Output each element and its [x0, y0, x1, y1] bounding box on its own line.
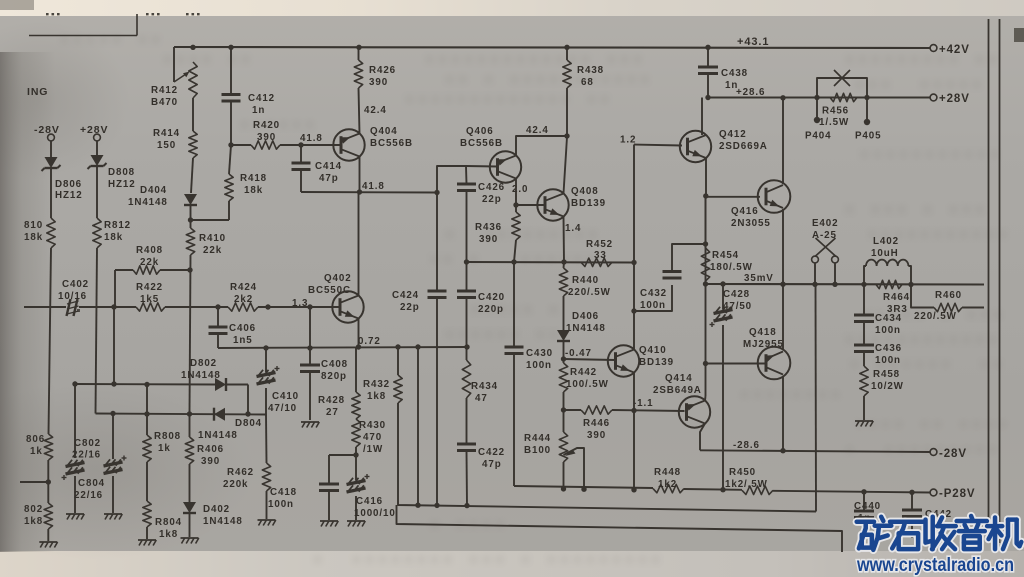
- capacitor C418 100n: [319, 482, 339, 485]
- node -0.47: [563, 341, 565, 363]
- capacitor C440 1n: [863, 492, 865, 511]
- wire feedback line left: [513, 485, 515, 487]
- resistor R424 2k2: [228, 303, 258, 311]
- wire 1.2 to Q412 base: [634, 145, 682, 146]
- ground under C416: [347, 520, 365, 522]
- transistor Q416 2N3055 (NPN): [758, 180, 791, 213]
- resistor R430 470/1W: [352, 419, 360, 447]
- capacitor C434 100n: [863, 284, 865, 315]
- wire stub left at 482: [47, 460, 49, 503]
- resistor R448 1k2: [653, 484, 684, 492]
- wire Q418 emitter up: [782, 284, 784, 350]
- wire Q402 emitter down to 0.72 line: [358, 319, 360, 348]
- resistor R406 390: [185, 437, 193, 464]
- transistor Q418 MJ2955 (PNP): [758, 347, 791, 380]
- wire Q414 collector to -28.6 line: [700, 424, 705, 451]
- zener D808 HZ12: [96, 141, 98, 155]
- wire to Q410 base: [564, 359, 616, 360]
- wire bias row upper y384: [75, 383, 215, 386]
- capacitor C408 820p: [309, 307, 311, 365]
- wire Q410 collector to x634: [633, 311, 635, 350]
- resistor R460 220/.5W: [908, 282, 913, 287]
- wire R432 to bus1: [398, 403, 816, 512]
- resistor R454 180/.5W: [705, 197, 707, 248]
- wire Q406 collector down to Q408 base: [515, 179, 517, 206]
- wire Q414 emitter up / x703 vertical: [705, 197, 707, 364]
- schematic frame corner top-left: [29, 35, 137, 37]
- page margin marks: [46, 13, 49, 15]
- wire -28V column down: [49, 248, 52, 434]
- wire +28.6 rail: [708, 96, 930, 98]
- capacitor C436 100n: [863, 322, 865, 345]
- transistor Q408 BD139 (NPN): [537, 189, 568, 220]
- diode D406 1N4148: [563, 296, 565, 330]
- resistor R414 150: [189, 131, 197, 158]
- wire VAS rail x634: [633, 145, 635, 263]
- wire emitter row y262: [467, 261, 635, 264]
- diode D402 1N4148: [189, 464, 191, 502]
- resistor R434 47: [466, 298, 468, 347]
- resistor 806 1k: [44, 434, 52, 460]
- pin P404: [816, 98, 818, 119]
- wire Q408 emitter down: [563, 217, 566, 263]
- capacitor C424 22p: [436, 193, 438, 292]
- wire R414 to D404: [191, 158, 193, 193]
- wire Q412 collector up: [701, 98, 703, 136]
- capacitor C416 1000/10 electrolytic: [355, 455, 357, 480]
- page fold line 1: [988, 19, 990, 540]
- capacitor C802 22/16 electrolytic: [74, 384, 76, 458]
- resistor R412 (B470 trimmer): [189, 62, 197, 98]
- resistor R408 22k: [114, 270, 116, 307]
- wire R812 down to D-row corner: [96, 248, 98, 414]
- transistor Q402 BC550C (NPN): [332, 291, 363, 322]
- wire Q404 collector down: [359, 157, 361, 193]
- capacitor C442: [911, 492, 913, 510]
- wire Q408 collector up: [564, 137, 568, 194]
- ground under R458: [855, 420, 873, 422]
- resistor R438 68: [563, 60, 571, 88]
- wire E402 right leg: [834, 263, 836, 284]
- wire x418 vertical: [417, 347, 419, 505]
- wire input line left: [24, 306, 66, 308]
- capacitor C412 1n: [230, 47, 232, 94]
- capacitor C426 22p: [465, 166, 468, 184]
- resistor R410 22k: [186, 228, 194, 255]
- wire output 35mV line: [706, 283, 985, 286]
- ground under D402: [181, 537, 199, 539]
- wire link 384-414 at x147: [146, 385, 148, 415]
- page fold line 2: [999, 19, 1001, 543]
- resistor R440 220/.5W: [559, 268, 567, 296]
- wire D404 to R410 with tap to R418: [190, 205, 192, 228]
- capacitor C406 1n5: [217, 307, 219, 327]
- wire 41.8 node up to Q406 base: [437, 166, 466, 193]
- wire bus2 lower: [397, 505, 843, 552]
- terminal -28V: [930, 449, 937, 456]
- capacitor C414 47p: [300, 145, 302, 163]
- resistor 802 1k8: [44, 503, 52, 529]
- pin P405: [866, 98, 868, 121]
- resistor R442 100/.5W: [559, 363, 567, 392]
- wire rail to R412 wiper: [173, 47, 175, 82]
- wire R430 bottom to C418: [329, 454, 356, 456]
- diode D404 1N4148: [184, 194, 197, 205]
- watermark logo blue text 矿石收音机: [857, 517, 892, 550]
- transistor Q410 BD139 (NPN): [608, 345, 639, 376]
- capacitor C402 10/16 electrolytic: [67, 299, 71, 316]
- wire E402 left leg down to bus1: [814, 263, 816, 284]
- wire -28.6 line: [700, 450, 930, 452]
- wire +43.1 top rail: [174, 47, 930, 48]
- resistor R444 B100 trimmer: [563, 392, 565, 432]
- node line 41.8 lower: [301, 191, 437, 194]
- capacitor C422 47p: [466, 398, 468, 444]
- resistor R428 27: [355, 347, 357, 392]
- svg-text:www.crystalradio.cn: www.crystalradio.cn: [856, 554, 1014, 576]
- resistor R436 390: [512, 212, 520, 240]
- ground under C418: [320, 520, 338, 522]
- resistor R452 33: [581, 258, 612, 266]
- resistor R458 10/2W: [863, 352, 865, 366]
- capacitor C438 1n: [707, 48, 709, 68]
- wire R412 to R414: [192, 98, 194, 131]
- capacitor C804 22/16 electrolytic: [112, 414, 114, 460]
- ground under R462: [258, 519, 276, 521]
- transistor Q406 BC556B (PNP): [490, 151, 521, 182]
- diode D802 1N4148: [215, 378, 226, 391]
- transistor Q414 2SB649A (PNP): [679, 396, 710, 427]
- ground under C802: [66, 513, 84, 515]
- terminal +28V: [930, 94, 937, 101]
- capacitor C432 100n: [634, 285, 672, 311]
- wire R410 down long vertical: [190, 255, 191, 413]
- ground under 802: [39, 541, 57, 543]
- ground under C408: [301, 421, 319, 423]
- resistor R464 3R3: [876, 280, 902, 288]
- wire Q402 collector up: [358, 193, 360, 296]
- resistor R418 18k: [225, 174, 233, 201]
- terminal +42V: [930, 45, 937, 52]
- resistor 810 18k: [50, 168, 52, 218]
- resistor R812 18k: [96, 166, 98, 218]
- zener D806 HZ12: [50, 141, 52, 157]
- capacitor C430 100n: [513, 262, 515, 347]
- wire D802 to drop: [227, 384, 249, 386]
- transistor Q404 BC556B (PNP): [333, 129, 364, 160]
- resistor R422 1k5: [136, 303, 165, 311]
- watermark logo white outline: [857, 517, 892, 550]
- diode D804 1N4148: [214, 408, 225, 421]
- ground under R804: [138, 539, 156, 541]
- capacitor C410 47/10 electrolytic: [265, 348, 267, 372]
- wire Q412 emitter down to Q416 base: [706, 158, 760, 197]
- fuse bypass loop with X: [817, 78, 867, 98]
- wire Q410 emitter to x634: [633, 373, 635, 411]
- wire Q418 base left: [706, 363, 767, 365]
- resistor R808 1k: [146, 414, 148, 435]
- resistor R456 1/.5W: [830, 93, 857, 101]
- transistor Q412 2SD669A (NPN): [680, 131, 711, 162]
- resistor R432 1k8: [397, 347, 399, 375]
- wire Q416 collector up: [782, 98, 784, 184]
- resistor R450 1k2/.5W: [742, 486, 773, 494]
- wire Q416 emitter down: [782, 209, 784, 284]
- resistor R804 1k8: [146, 462, 148, 501]
- terminal -P28V: [930, 489, 937, 496]
- wire Q406 emitter to 42.4 node: [516, 136, 567, 156]
- capacitor C428 47/50 electrolytic: [722, 284, 724, 309]
- wire Q418 collector down to -28.6: [782, 376, 784, 451]
- wire bias row lower y414: [96, 414, 267, 415]
- ground under C804: [104, 513, 122, 515]
- wire 0.72 line: [218, 347, 467, 348]
- resistor R420 390: [231, 144, 251, 146]
- resistor R446 390: [581, 406, 612, 414]
- resistor R462 220k: [265, 415, 268, 464]
- resistor R426 390: [354, 60, 362, 88]
- capacitor C420 220p: [466, 262, 468, 291]
